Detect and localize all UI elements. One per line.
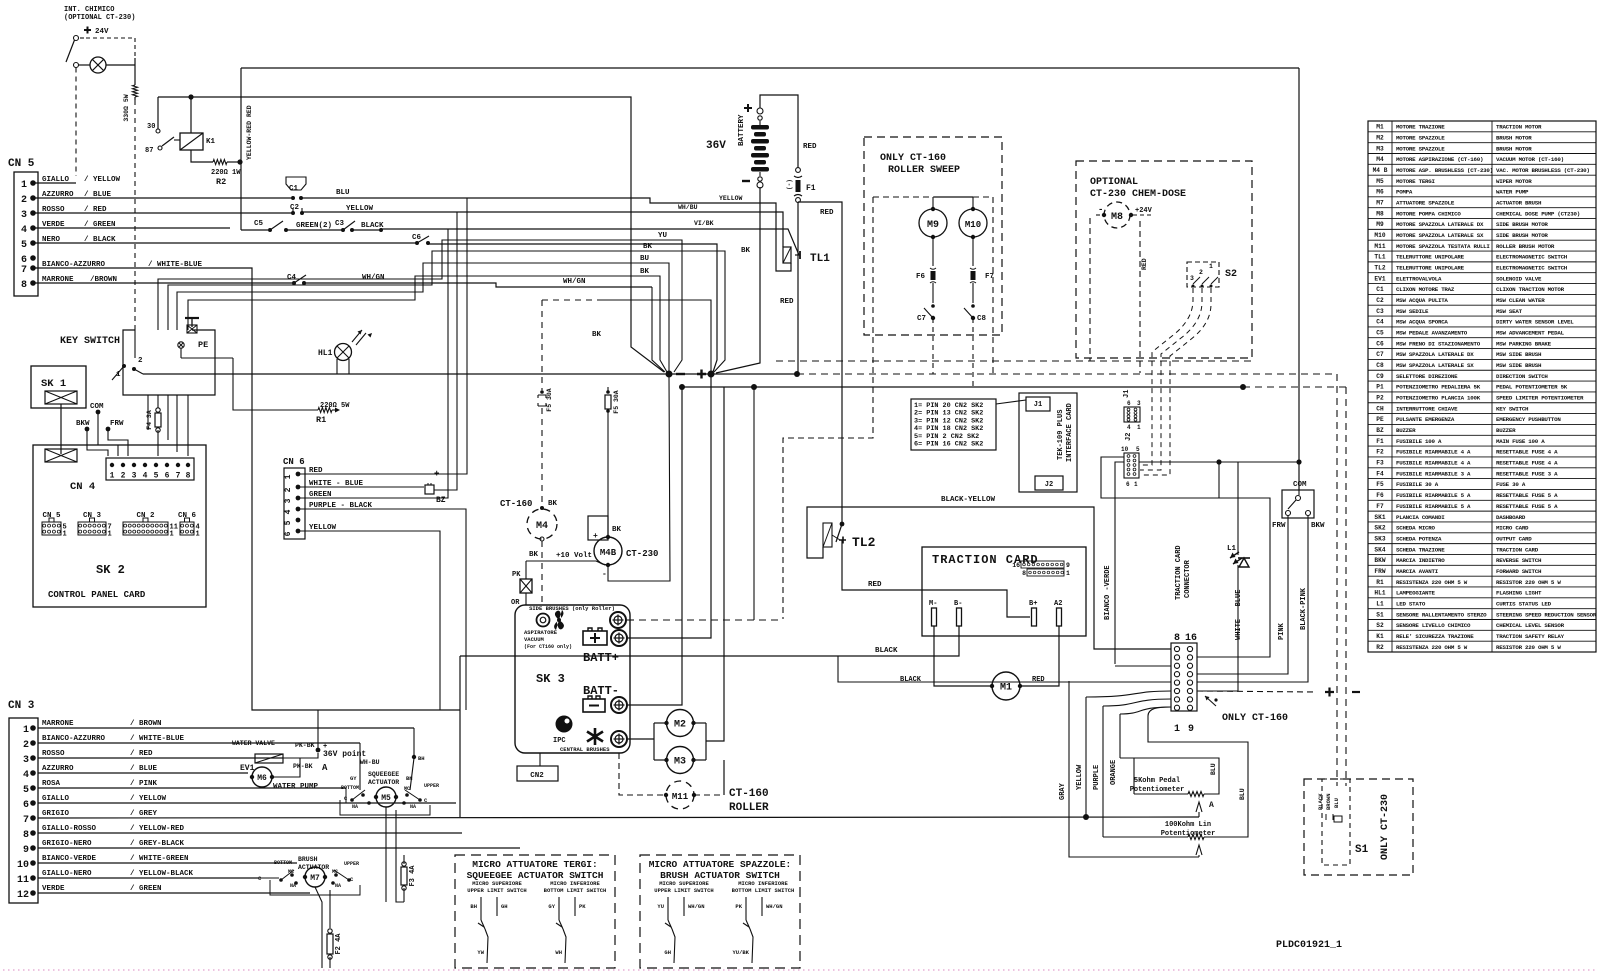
svg-text:YELLOW: YELLOW	[1076, 764, 1084, 790]
svg-text:C7: C7	[1376, 351, 1384, 358]
svg-text:R2: R2	[216, 177, 226, 187]
svg-text:WH/GN: WH/GN	[766, 903, 783, 910]
svg-text:RESISTENZA 220 OHM 5 W: RESISTENZA 220 OHM 5 W	[1396, 644, 1468, 651]
svg-text:/ YELLOW-RED: / YELLOW-RED	[130, 825, 185, 833]
water pump M6	[252, 767, 272, 787]
svg-text:MSW PARKING BRAKE: MSW PARKING BRAKE	[1496, 340, 1552, 347]
wire WH/GN row	[304, 283, 652, 287]
svg-text:WH/GN: WH/GN	[688, 903, 705, 910]
wire CN3 pin 4	[38, 772, 248, 774]
svg-text:S2: S2	[1376, 622, 1384, 629]
side brush motor M9	[932, 197, 934, 210]
svg-text:BLACK-PINK: BLACK-PINK	[1300, 587, 1308, 630]
svg-text:PEDAL POTENTIOMETER 5K: PEDAL POTENTIOMETER 5K	[1496, 384, 1568, 391]
svg-text:BRUSH: BRUSH	[298, 856, 318, 863]
svg-text:BK: BK	[640, 268, 650, 276]
svg-text:1: 1	[1134, 481, 1138, 488]
svg-text:PK: PK	[579, 903, 586, 910]
plot margin dotted line	[3, 969, 1597, 971]
svg-text:8: 8	[21, 280, 27, 291]
svg-text:BRUSH MOTOR: BRUSH MOTOR	[1496, 145, 1532, 152]
svg-text:STEERING SPEED REDUCTION SENSO: STEERING SPEED REDUCTION SENSOR	[1496, 611, 1597, 618]
svg-text:MICRO ATTUATORE TERGI:: MICRO ATTUATORE TERGI:	[472, 859, 597, 870]
svg-text:100Kohm Lin: 100Kohm Lin	[1165, 821, 1211, 829]
svg-text:GIALLO-NERO: GIALLO-NERO	[42, 870, 92, 878]
svg-text:M9: M9	[927, 220, 939, 231]
svg-text:M5: M5	[1376, 178, 1384, 185]
svg-text:INTERFACE CARD: INTERFACE CARD	[1066, 403, 1074, 462]
svg-text:CENTRAL BRUSHES: CENTRAL BRUSHES	[560, 746, 610, 753]
svg-text:COM: COM	[90, 403, 104, 411]
svg-text:WH/GN: WH/GN	[362, 274, 385, 282]
svg-text:/ RED: / RED	[130, 750, 153, 758]
svg-text:CHEMICAL LEVEL SENSOR: CHEMICAL LEVEL SENSOR	[1496, 622, 1565, 629]
svg-text:M6: M6	[1376, 189, 1384, 196]
wire COM down	[1298, 68, 1300, 491]
svg-text:SK 1: SK 1	[41, 378, 66, 390]
svg-text:F1: F1	[806, 184, 816, 193]
svg-text:C2: C2	[1376, 297, 1384, 304]
output card SK 3	[515, 605, 630, 753]
svg-text:1: 1	[1209, 263, 1213, 270]
svg-text:RESISTOR 220 OHM 5 W: RESISTOR 220 OHM 5 W	[1496, 644, 1561, 651]
wires J2 left	[1101, 457, 1270, 657]
svg-text:POTENZIOMETRO PLANCIA 100K: POTENZIOMETRO PLANCIA 100K	[1396, 395, 1481, 402]
svg-text:MARCIA INDIETRO: MARCIA INDIETRO	[1396, 557, 1445, 564]
svg-text:PULSANTE EMERGENZA: PULSANTE EMERGENZA	[1396, 416, 1455, 423]
svg-text:B+: B+	[1029, 600, 1037, 608]
svg-text:RED: RED	[1141, 258, 1148, 270]
wire vertical x460	[459, 656, 461, 817]
5K pedal potentiometer	[1120, 758, 1134, 794]
svg-text:GREEN(2): GREEN(2)	[296, 222, 332, 230]
wire battery plus to F1	[760, 95, 798, 168]
svg-text:RED: RED	[803, 143, 817, 151]
svg-text:RED: RED	[780, 298, 794, 306]
svg-text:PK-BK: PK-BK	[293, 763, 313, 770]
traction card SK4	[922, 547, 1086, 636]
svg-text:MOTORE TERGI: MOTORE TERGI	[1396, 178, 1436, 185]
pin mapping box	[911, 399, 996, 450]
svg-text:MOTORE SPAZZOLA TESTATA RULLI: MOTORE SPAZZOLA TESTATA RULLI	[1396, 243, 1490, 250]
svg-text:M5: M5	[381, 794, 391, 803]
wire GREY long row	[38, 817, 1199, 818]
svg-text:2: 2	[21, 195, 27, 206]
svg-text:A: A	[1209, 801, 1214, 810]
chemical level sensor S2	[1187, 262, 1219, 287]
svg-text:BK: BK	[548, 500, 558, 508]
svg-text:BOTTOM: BOTTOM	[274, 860, 292, 866]
svg-text:M8: M8	[1111, 212, 1123, 223]
svg-text:A: A	[322, 763, 328, 773]
+24V supply	[84, 27, 91, 34]
brush motor M2	[653, 723, 655, 760]
svg-text:CN 4: CN 4	[70, 481, 95, 493]
svg-text:/ WHITE-BLUE: / WHITE-BLUE	[130, 735, 185, 743]
svg-text:3: 3	[1137, 400, 1141, 407]
svg-text:CHEMICAL DOSE PUMP (CT230): CHEMICAL DOSE PUMP (CT230)	[1496, 210, 1580, 217]
wire CN6.1 RED up to BLU row	[298, 198, 467, 474]
svg-text:HL1: HL1	[1374, 590, 1385, 597]
100K lin potentiometer	[1103, 836, 1188, 838]
svg-text:ORANGE: ORANGE	[1110, 760, 1118, 785]
dashed wire switch to CN5 pin1	[75, 68, 77, 177]
wire F1 box to TL2	[798, 202, 842, 524]
wire side brushes dashed	[627, 619, 783, 621]
svg-text:2: 2	[1199, 269, 1203, 276]
switch INT CHIMICO	[74, 36, 79, 41]
wire CN5 pin1 GIALLO/YELLOW	[33, 182, 76, 184]
svg-text:F6: F6	[916, 273, 926, 281]
svg-text:CLIXON MOTORE TRAZ: CLIXON MOTORE TRAZ	[1396, 286, 1455, 293]
svg-text:F2 4A: F2 4A	[335, 933, 343, 955]
svg-text:220Ω 1W: 220Ω 1W	[211, 169, 241, 177]
svg-text:MICRO SUPERIORE: MICRO SUPERIORE	[472, 880, 522, 887]
chem dose pump M8	[1104, 202, 1130, 228]
svg-text:3: 3	[284, 498, 293, 503]
svg-text:MICRO INFERIORE: MICRO INFERIORE	[738, 880, 788, 887]
svg-text:11: 11	[17, 875, 29, 886]
OPTIONAL CT-230 CHEM-DOSE box	[1076, 161, 1252, 358]
card SK 1	[31, 366, 86, 408]
svg-text:ASPIRATORE: ASPIRATORE	[524, 629, 558, 636]
svg-text:M4: M4	[1376, 156, 1384, 163]
svg-text:MOTORE SPAZZOLE: MOTORE SPAZZOLE	[1396, 134, 1445, 141]
svg-text:TL1: TL1	[810, 253, 830, 265]
svg-text:RESETTABLE FUSE 5 A: RESETTABLE FUSE 5 A	[1496, 503, 1558, 510]
svg-text:RELE’ SICUREZZA TRAZIONE: RELE’ SICUREZZA TRAZIONE	[1396, 633, 1474, 640]
svg-text:MOTORE TRAZIONE: MOTORE TRAZIONE	[1396, 124, 1445, 131]
svg-text:M2: M2	[674, 720, 686, 731]
svg-text:GY: GY	[350, 775, 357, 782]
svg-text:POMPA: POMPA	[1396, 189, 1413, 196]
svg-text:C5: C5	[1376, 330, 1384, 337]
svg-text:5: 5	[23, 785, 29, 796]
wire CN3 pin 9	[38, 847, 520, 849]
svg-text:/ YELLOW: / YELLOW	[84, 176, 121, 184]
svg-text:+: +	[593, 532, 598, 541]
wire CN3 pin 5	[38, 787, 346, 789]
roller motor M11	[619, 753, 664, 795]
svg-text:BROWN: BROWN	[1325, 793, 1332, 810]
svg-text:SQUEEGEE: SQUEEGEE	[368, 771, 399, 778]
svg-text:BK: BK	[592, 331, 602, 339]
svg-text:SIDE BRUSH MOTOR: SIDE BRUSH MOTOR	[1496, 232, 1548, 239]
svg-text:A2: A2	[1054, 600, 1062, 608]
svg-text:F3: F3	[1376, 460, 1384, 467]
svg-text:3: 3	[21, 210, 27, 221]
svg-text:P2: P2	[1376, 395, 1384, 402]
svg-text:2: 2	[23, 740, 29, 751]
svg-text:DASHBOARD: DASHBOARD	[1496, 514, 1526, 521]
svg-text:(-): (-)	[786, 179, 793, 190]
svg-text:8: 8	[186, 472, 191, 481]
svg-text:R1: R1	[316, 415, 326, 425]
svg-text:RED: RED	[1032, 676, 1045, 684]
wire RED vertical	[240, 68, 242, 230]
svg-text:SENSORE RALLENTAMENTO STERZO: SENSORE RALLENTAMENTO STERZO	[1396, 611, 1487, 618]
svg-text:ATTUATORE SPAZZOLE: ATTUATORE SPAZZOLE	[1396, 199, 1455, 206]
svg-text:BLU: BLU	[1210, 763, 1217, 775]
svg-text:MARRONE: MARRONE	[42, 720, 74, 728]
svg-text:KEY SWITCH: KEY SWITCH	[1496, 405, 1529, 412]
svg-text:MOTORE ASPIRAZIONE (CT-160): MOTORE ASPIRAZIONE (CT-160)	[1396, 156, 1483, 163]
svg-text:C7: C7	[917, 315, 926, 323]
svg-text:GRIGIO-NERO: GRIGIO-NERO	[42, 840, 92, 848]
svg-text:LED STATO: LED STATO	[1396, 600, 1426, 607]
svg-text:CN 2: CN 2	[136, 512, 155, 520]
wire F1 to bus	[797, 202, 799, 374]
svg-text:F5 30A: F5 30A	[613, 390, 620, 414]
brush bottom box	[270, 880, 360, 895]
svg-text:GY: GY	[548, 903, 555, 910]
svg-text:S1: S1	[1355, 844, 1369, 856]
svg-text:MOTORE SPAZZOLA LATERALE SX: MOTORE SPAZZOLA LATERALE SX	[1396, 232, 1484, 239]
svg-text:PURPLE: PURPLE	[1093, 765, 1101, 790]
svg-text:J2: J2	[1125, 433, 1133, 441]
svg-text:7: 7	[176, 472, 181, 481]
svg-text:IPC: IPC	[553, 737, 566, 745]
svg-text:C2: C2	[290, 204, 300, 212]
svg-text:OPTIONAL: OPTIONAL	[1090, 177, 1138, 188]
svg-text:30: 30	[147, 123, 155, 131]
svg-text:WH-BU: WH-BU	[360, 759, 380, 766]
top bus wire	[241, 67, 1299, 69]
svg-text:COM: COM	[1293, 481, 1307, 489]
svg-text:CN 5: CN 5	[42, 512, 61, 520]
wire A2 to M1	[1020, 626, 1059, 686]
svg-text:CT-160: CT-160	[729, 788, 769, 800]
svg-text:M1: M1	[1000, 683, 1012, 694]
svg-text:DIRECTION SWITCH: DIRECTION SWITCH	[1496, 373, 1548, 380]
svg-text:CN 6: CN 6	[178, 512, 197, 520]
svg-text:1: 1	[284, 474, 293, 479]
fan icon	[554, 610, 564, 630]
svg-text:P1: P1	[1376, 384, 1384, 391]
svg-text:MSW SEDILE: MSW SEDILE	[1396, 308, 1429, 315]
wire M- to M1	[934, 626, 992, 686]
svg-text:J1: J1	[1034, 401, 1042, 409]
TEK-109 interface card	[1019, 393, 1077, 492]
central brushes icon	[587, 728, 603, 745]
svg-text:C3: C3	[1376, 308, 1384, 315]
svg-text:WIPER MOTOR: WIPER MOTOR	[1496, 178, 1532, 185]
svg-text:C3: C3	[335, 220, 345, 228]
svg-text:BZ: BZ	[1376, 427, 1384, 434]
svg-text:BIANCO-VERDE: BIANCO-VERDE	[42, 855, 97, 863]
svg-text:5Kohm Pedal: 5Kohm Pedal	[1134, 777, 1180, 785]
wire CN6.6 YELLOW down	[298, 531, 440, 710]
wire +10 Volt	[526, 561, 605, 565]
svg-text:VAC. MOTOR BRUSHLESS (CT-230): VAC. MOTOR BRUSHLESS (CT-230)	[1496, 167, 1590, 174]
svg-text:GRAY: GRAY	[1059, 782, 1067, 800]
component table	[1368, 121, 1596, 652]
svg-text:WH/GN: WH/GN	[563, 278, 586, 286]
lamp (chem indicator)	[90, 57, 106, 73]
svg-text:M10: M10	[1374, 232, 1385, 239]
svg-text:C9: C9	[1376, 373, 1384, 380]
svg-text:BUZZER: BUZZER	[1396, 427, 1416, 434]
svg-text:24V: 24V	[95, 28, 109, 36]
svg-text:RESISTOR 220 OHM 5 W: RESISTOR 220 OHM 5 W	[1496, 579, 1561, 586]
svg-text:CT-160: CT-160	[500, 499, 532, 509]
svg-text:PK-BK: PK-BK	[295, 742, 315, 749]
svg-text:GH: GH	[664, 949, 671, 956]
fuse F5 30A (CT-160, dashed branch)	[541, 300, 543, 390]
svg-text:POTENZIOMETRO PEDALIERA 5K: POTENZIOMETRO PEDALIERA 5K	[1396, 384, 1481, 391]
svg-text:MSW ACQUA SPORCA: MSW ACQUA SPORCA	[1396, 319, 1448, 326]
svg-text:MICRO INFERIORE: MICRO INFERIORE	[550, 880, 600, 887]
svg-text:M10: M10	[965, 220, 981, 230]
svg-text:3: 3	[132, 472, 137, 481]
svg-text:SPEED LIMITER POTENTIOMETER: SPEED LIMITER POTENTIOMETER	[1496, 395, 1584, 402]
svg-text:M11: M11	[1374, 243, 1385, 250]
wire BLACK row from C6	[428, 244, 717, 372]
svg-text:MICRO SUPERIORE: MICRO SUPERIORE	[659, 880, 709, 887]
wire battery minus drop	[716, 187, 760, 373]
svg-text:MSW SIDE BRUSH: MSW SIDE BRUSH	[1496, 351, 1542, 358]
svg-text:1: 1	[110, 472, 115, 481]
svg-text:(OPTIONAL CT-230): (OPTIONAL CT-230)	[64, 14, 135, 22]
svg-text:C1: C1	[289, 185, 299, 193]
svg-text:CT-230 CHEM-DOSE: CT-230 CHEM-DOSE	[1090, 189, 1186, 200]
svg-text:TL1: TL1	[1374, 254, 1385, 261]
svg-text:CONTROL PANEL CARD: CONTROL PANEL CARD	[48, 590, 146, 600]
svg-text:3: 3	[1190, 275, 1194, 282]
svg-text:TRACTION CARD: TRACTION CARD	[1175, 545, 1183, 600]
svg-text:SK1: SK1	[1374, 514, 1385, 521]
svg-text:CN 3: CN 3	[83, 512, 102, 520]
svg-text:4: 4	[1127, 424, 1131, 431]
svg-text:330Ω 5W: 330Ω 5W	[123, 94, 130, 121]
svg-text:+10 Volt: +10 Volt	[556, 552, 592, 560]
svg-text:7: 7	[21, 265, 27, 276]
svg-text:BLU: BLU	[1333, 798, 1340, 808]
svg-text:BOTTOM LIMIT SWITCH: BOTTOM LIMIT SWITCH	[544, 887, 607, 894]
svg-text:F2: F2	[1376, 449, 1384, 456]
svg-text:6: 6	[23, 800, 29, 811]
svg-text:S2: S2	[1225, 269, 1237, 280]
big loop wire top	[241, 97, 664, 372]
svg-text:1: 1	[21, 180, 27, 191]
svg-text:RED: RED	[820, 209, 834, 217]
svg-text:RESISTENZA 220 OHM 5 W: RESISTENZA 220 OHM 5 W	[1396, 579, 1468, 586]
svg-text:BKW: BKW	[1311, 522, 1325, 530]
svg-text:1: 1	[108, 531, 112, 539]
svg-text:PE: PE	[198, 340, 208, 350]
svg-text:BATT+: BATT+	[583, 651, 619, 665]
svg-text:8: 8	[1174, 633, 1180, 644]
wire CN3 pin 10	[38, 862, 297, 864]
svg-text:VACUUM MOTOR (CT-160): VACUUM MOTOR (CT-160)	[1496, 156, 1564, 163]
svg-text:(For CT160 only): (For CT160 only)	[524, 644, 572, 650]
svg-text:MSW SEAT: MSW SEAT	[1496, 308, 1523, 315]
emergency pushbutton PE	[185, 317, 199, 319]
svg-text:10: 10	[1121, 446, 1129, 453]
svg-text:M7: M7	[1376, 199, 1384, 206]
contactor TL2	[807, 507, 842, 558]
svg-text:2: 2	[121, 472, 126, 481]
svg-text:MICRO CARD: MICRO CARD	[1496, 525, 1529, 532]
svg-text:SK3: SK3	[1374, 535, 1385, 542]
svg-text:M3: M3	[674, 757, 686, 768]
svg-text:BH: BH	[470, 903, 477, 910]
squeegee bottom box	[340, 800, 430, 815]
svg-text:M6: M6	[257, 774, 267, 783]
svg-text:M4B: M4B	[600, 548, 617, 558]
svg-text:J2: J2	[1045, 481, 1053, 489]
svg-text:/ YELLOW: / YELLOW	[130, 795, 167, 803]
svg-text:MSW CLEAN WATER: MSW CLEAN WATER	[1496, 297, 1545, 304]
wire CN3 pin 3	[38, 757, 254, 759]
svg-text:BU: BU	[640, 255, 650, 263]
wire BIANCO-VERDE into connector	[1115, 665, 1171, 667]
svg-text:PE: PE	[1376, 416, 1384, 423]
svg-text:SK 3: SK 3	[536, 672, 565, 686]
wire M4 branch to plus node	[542, 299, 602, 301]
node junction top	[158, 96, 241, 98]
svg-text:DIRTY WATER SENSOR LEVEL: DIRTY WATER SENSOR LEVEL	[1496, 319, 1574, 326]
svg-text:BOTTOM LIMIT SWITCH: BOTTOM LIMIT SWITCH	[732, 887, 795, 894]
svg-text:ROLLER: ROLLER	[729, 802, 769, 814]
svg-text:/ PINK: / PINK	[130, 780, 158, 788]
svg-text:MSW SPAZZOLA LATERALE DX: MSW SPAZZOLA LATERALE DX	[1396, 351, 1474, 358]
svg-text:NA: NA	[410, 804, 416, 810]
buzzer BZ	[298, 486, 424, 488]
svg-text:TL2: TL2	[1374, 265, 1385, 272]
svg-text:/ YELLOW-BLACK: / YELLOW-BLACK	[130, 870, 194, 878]
svg-text:MOTORE SPAZZOLA LATERALE DX: MOTORE SPAZZOLA LATERALE DX	[1396, 221, 1484, 228]
ONLY CT-160 ROLLER SWEEP box	[864, 137, 1002, 335]
svg-text:MSW ACQUA PULITA: MSW ACQUA PULITA	[1396, 297, 1448, 304]
svg-text:Potentiometer: Potentiometer	[1130, 786, 1185, 794]
svg-text:BK: BK	[741, 247, 751, 255]
svg-text:SIDE BRUSHES (only Roller): SIDE BRUSHES (only Roller)	[529, 605, 615, 612]
svg-text:/ BROWN: / BROWN	[130, 720, 162, 728]
svg-text:TRACTION SAFETY RELAY: TRACTION SAFETY RELAY	[1496, 633, 1565, 640]
second bus	[682, 386, 1243, 388]
svg-text:SK4: SK4	[1374, 546, 1385, 553]
dashed wires S2 down to J2	[1140, 288, 1193, 465]
svg-text:CURTIS STATUS LED: CURTIS STATUS LED	[1496, 600, 1552, 607]
svg-text:F5 30A: F5 30A	[546, 388, 553, 412]
svg-text:FLASHING LIGHT: FLASHING LIGHT	[1496, 590, 1542, 597]
svg-text:INTERRUTTORE CHIAVE: INTERRUTTORE CHIAVE	[1396, 405, 1458, 412]
svg-text:ROSA: ROSA	[42, 780, 61, 788]
svg-text:1: 1	[196, 531, 200, 539]
svg-text:S1: S1	[1376, 611, 1384, 618]
svg-text:REVERSE SWITCH: REVERSE SWITCH	[1496, 557, 1542, 564]
svg-text:C5: C5	[254, 220, 264, 228]
svg-text:FORWARD SWITCH: FORWARD SWITCH	[1496, 568, 1542, 575]
GRAY box wire	[838, 656, 1069, 682]
svg-text:BK: BK	[612, 526, 622, 534]
svg-text:NA: NA	[352, 804, 358, 810]
wire CN3 pin 11	[38, 877, 258, 879]
steering sensor S1 box	[1304, 779, 1413, 875]
svg-text:FUSIBILE RIARMABILE 4 A: FUSIBILE RIARMABILE 4 A	[1396, 449, 1471, 456]
svg-text:OR: OR	[511, 599, 520, 607]
wire BH	[412, 755, 416, 759]
svg-text:GIALLO: GIALLO	[42, 795, 70, 803]
svg-text:5: 5	[21, 240, 27, 251]
svg-text:FUSIBILE 30 A: FUSIBILE 30 A	[1396, 481, 1439, 488]
svg-text:C4: C4	[1376, 319, 1384, 326]
svg-text:ELECTROMAGNETIC SWITCH: ELECTROMAGNETIC SWITCH	[1496, 265, 1568, 272]
svg-text:C6: C6	[1376, 340, 1384, 347]
svg-text:MAIN FUSE 100 A: MAIN FUSE 100 A	[1496, 438, 1545, 445]
svg-text:6: 6	[284, 531, 293, 536]
